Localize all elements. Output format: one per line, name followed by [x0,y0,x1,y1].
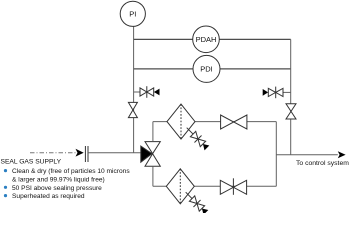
valve: 3-way transfer valve [141,142,161,167]
svg-text:PDI: PDI [200,64,213,73]
wire: branch outlet header (right vertical of loop) [275,122,277,187]
svg-text:To control system: To control system [296,160,349,167]
valve: upper filter drain valve with cap (45 deg) [183,124,210,151]
instrument PDAH: diff pressure alarm high bubble [193,26,220,53]
svg-text:& larger and 99.97% liquid fre: & larger and 99.97% liquid free) [12,177,105,184]
cap: right vent capped end (solid triangle) [263,89,268,96]
wire: right vent branch [283,91,291,93]
valve: right vent/test valve [268,87,283,99]
instrument PDI: diff pressure indicator bubble [193,55,220,82]
label: bullet 1 line 1 [4,169,7,172]
wire: PDI differential line (horizontal) [134,68,291,70]
svg-text:Clean & dry (free of particles: Clean & dry (free of particles 10 micron… [12,168,130,175]
svg-text:PI: PI [129,9,136,18]
flange: supply battery-limit double bars [84,146,86,162]
cap: left vent capped end (solid triangle) [154,89,160,96]
wire: seal gas supply dash-dot line (by others) [30,152,76,154]
wire: right instrument sense line (vertical to control line) [290,39,292,154]
wire: riser 3-way valve top to upper branch [152,122,154,142]
svg-text:PDAH: PDAH [196,35,217,44]
wire: PDAH differential line (horizontal, left tap to right tap) [134,38,291,40]
wire: lower filter branch line [153,185,276,187]
valve: lower branch block valve (gate with stem) [220,178,246,195]
valve: right instrument root valve (vertical gate) [286,104,296,119]
wire: outlet line to control system [276,154,338,156]
filter F2: lower filter (diamond) [166,169,194,204]
arrow: supply flow arrow [76,149,84,157]
svg-text:50 PSI above sealing pressure: 50 PSI above sealing pressure [12,185,102,192]
svg-text:SEAL GAS SUPPLY: SEAL GAS SUPPLY [1,158,62,165]
valve: left instrument root valve (vertical gate) [128,102,137,117]
valve: lower filter drain valve with cap (45 deg) [182,189,209,216]
wire: upper filter branch line [153,121,276,123]
filter F1: upper filter (diamond) [167,104,195,139]
label: bullet 3 [4,194,7,197]
label: bullet 2 [4,186,7,189]
svg-text:Superheated as required: Superheated as required [12,193,85,200]
valve: left vent/test valve [140,86,154,98]
instrument PI: pressure indicator bubble [120,1,145,26]
wire: left instrument sense line (vertical from PI to supply) [133,26,135,152]
wire: riser 3-way valve bottom to lower branch [152,166,154,186]
wire: supply line to 3-way valve [88,152,141,154]
arrow: to control system [338,151,346,158]
wire: left vent branch [134,91,140,93]
valve: upper branch block valve (gate) [221,115,247,129]
